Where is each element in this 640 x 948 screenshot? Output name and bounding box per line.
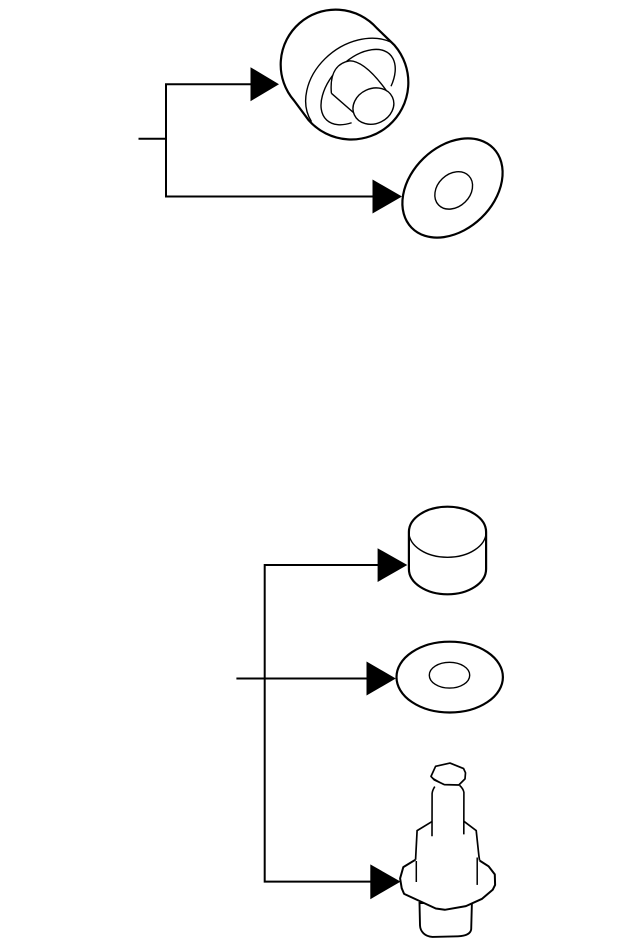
- sensor flange outline: [400, 860, 495, 910]
- sensor hex body edges: [416, 821, 480, 861]
- arrowhead to grommet: [251, 67, 280, 101]
- wire: left tick top assembly: [139, 138, 167, 140]
- washer 1 inner hole: [427, 164, 480, 217]
- part: sensor (oil pressure switch): [400, 763, 495, 937]
- arrowhead to sensor: [370, 864, 400, 899]
- sensor hidden edge left: [415, 861, 417, 882]
- wire: bracket polyline bottom assembly: [265, 565, 379, 882]
- washer 2 inner hole: [429, 662, 469, 688]
- cap top rim lower arc: [409, 532, 486, 557]
- arrowhead to washer 2: [367, 662, 396, 696]
- washer 1 outer ellipse: [383, 119, 523, 258]
- grommet outer silhouette: [281, 10, 409, 140]
- sensor neck edges: [432, 785, 464, 836]
- wire: left tick bottom assembly: [236, 678, 264, 680]
- sensor bottom threaded cylinder: [420, 903, 472, 937]
- sensor hidden edge right: [476, 858, 478, 885]
- sensor neck fill: [432, 785, 464, 836]
- leader line group 1 (top assembly bracket): [139, 84, 375, 196]
- sensor cap lower rim line: [432, 778, 444, 785]
- part: cap cylinder: [409, 507, 486, 595]
- leader line group 2 (bottom assembly bracket): [236, 565, 378, 882]
- grommet inner cylinder body fill: [331, 61, 386, 116]
- sensor top cap: [431, 763, 466, 785]
- grommet inner cylinder front face: [347, 81, 400, 130]
- sensor flange fill: [400, 860, 495, 910]
- washer 2 outer ellipse: [397, 642, 503, 713]
- cap body outline: [409, 507, 486, 595]
- grommet bore edge arc: [321, 49, 395, 124]
- wire: bracket polyline top assembly: [166, 84, 374, 196]
- grommet inner cylinder body edges: [331, 61, 386, 116]
- wire: middle arrow line: [265, 678, 367, 680]
- part: grommet (top): [281, 10, 409, 140]
- part: washer 1 (tilted): [383, 119, 523, 258]
- arrowhead to cap: [378, 548, 408, 582]
- part: washer 2 (flat): [397, 642, 503, 713]
- arrowhead to washer 1: [373, 180, 403, 214]
- grommet front rim edge arc: [306, 38, 392, 121]
- sensor hex body fill: [416, 821, 480, 862]
